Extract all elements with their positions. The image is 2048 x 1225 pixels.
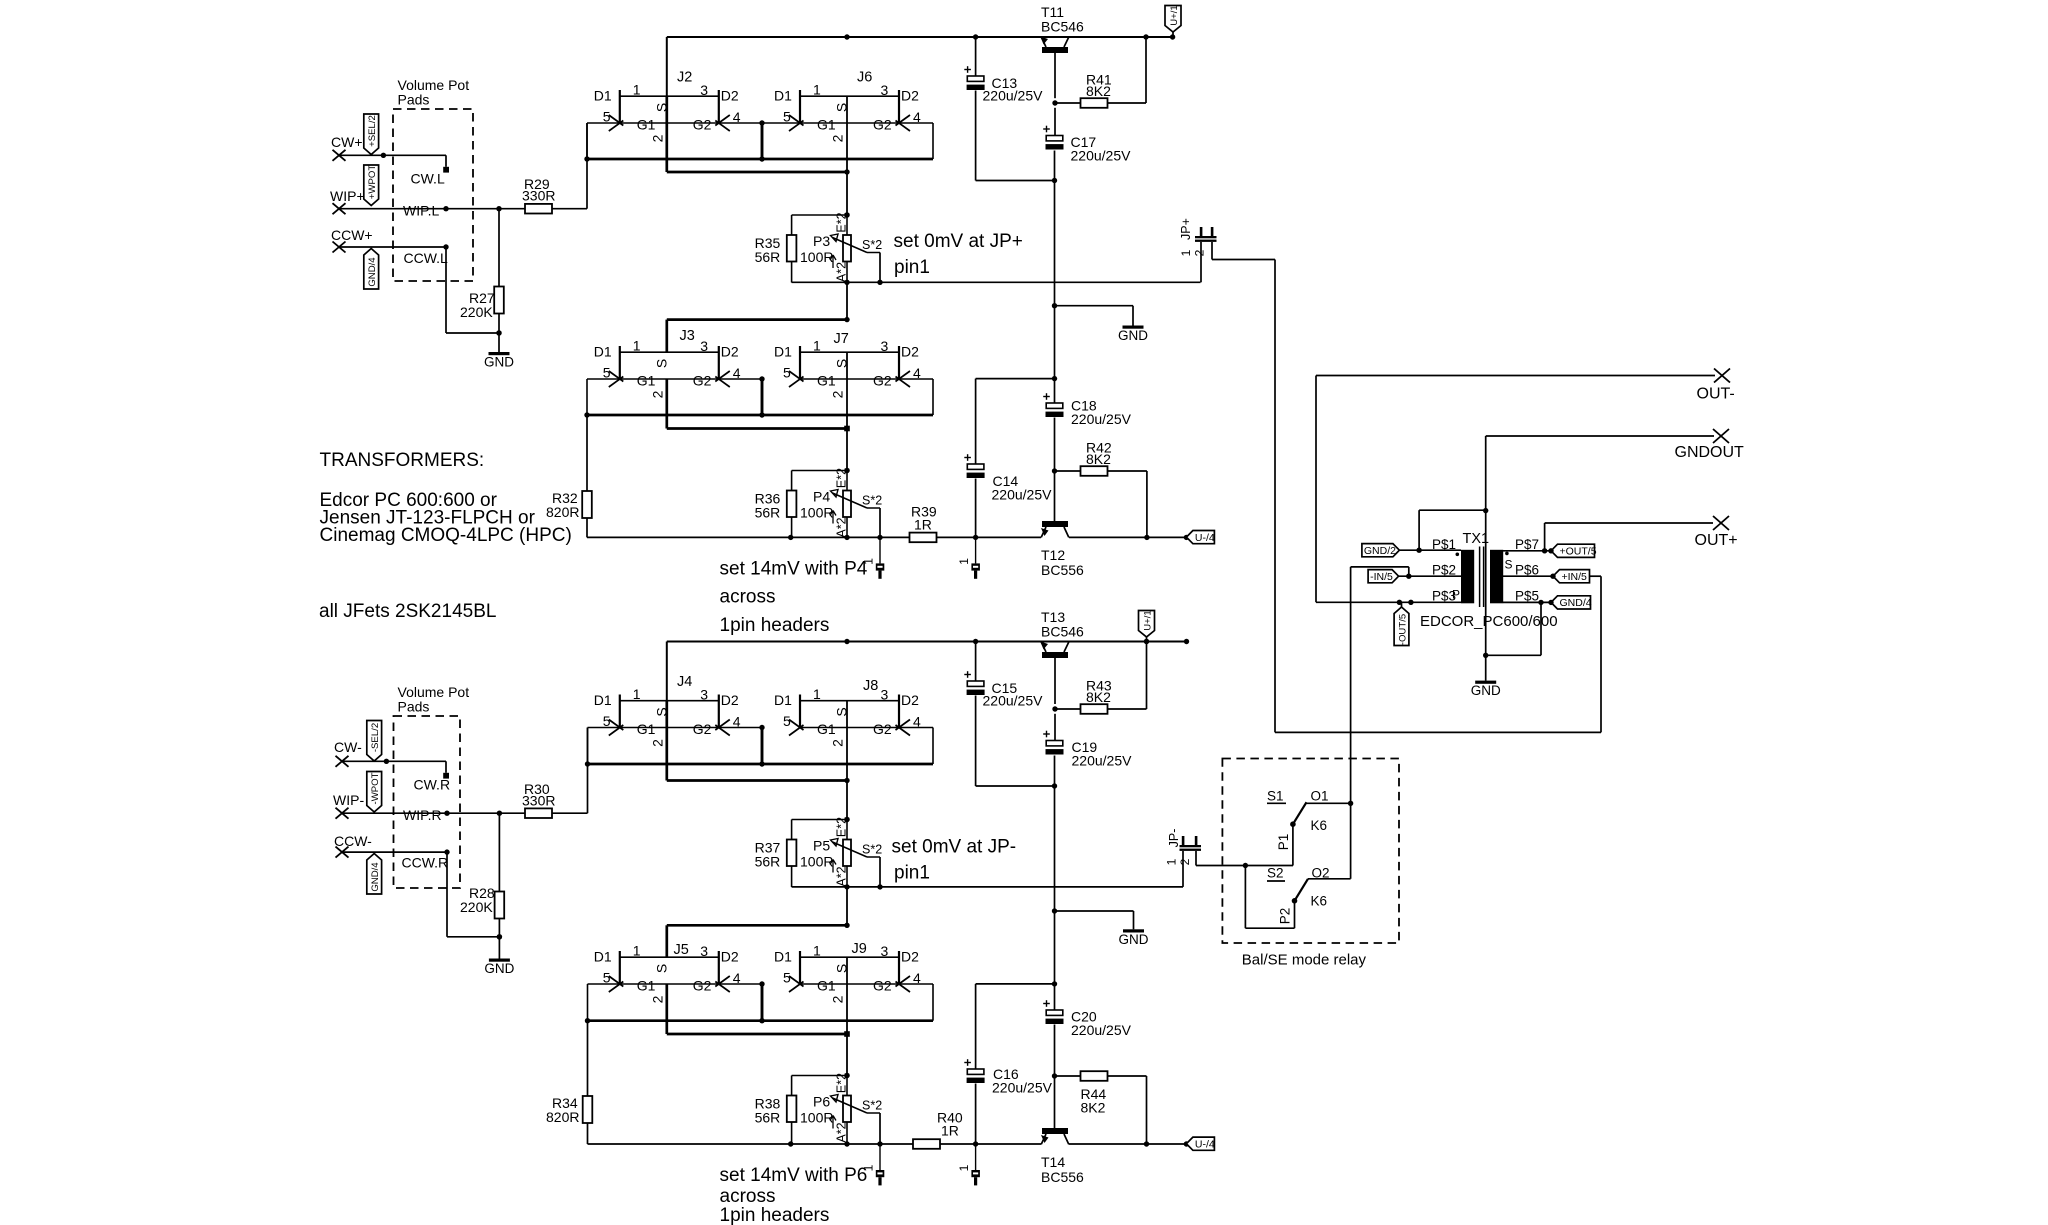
pad flag U+/1 (bottom) <box>1139 610 1155 637</box>
svg-text:set 0mV at JP-: set 0mV at JP- <box>892 837 1017 858</box>
svg-text:WIP.R: WIP.R <box>403 807 442 823</box>
svg-text:5: 5 <box>783 109 791 125</box>
svg-text:CCW.L: CCW.L <box>404 250 449 266</box>
text Volume Pot Pads (right) <box>398 684 470 715</box>
jfet J4 (dual 2SK2145) <box>594 674 741 747</box>
1pin header (P6 out) <box>862 1144 885 1185</box>
svg-text:1pin headers: 1pin headers <box>720 615 830 636</box>
svg-text:CW.L: CW.L <box>411 171 445 187</box>
wire R42 right <box>1108 471 1150 540</box>
wire P6 pot leads <box>846 1076 848 1144</box>
capacitor C15 <box>964 671 1043 708</box>
svg-text:set 14mV with P6: set 14mV with P6 <box>720 1165 868 1186</box>
wire chain to C18 <box>1054 306 1056 403</box>
svg-text:S*2: S*2 <box>862 494 882 508</box>
wire rail to C15 <box>975 642 977 682</box>
wire R32 bottom <box>587 518 910 540</box>
connector JP- <box>1165 829 1202 866</box>
svg-text:GND: GND <box>1471 683 1501 698</box>
text Volume Pot Pads (left) <box>398 77 470 108</box>
svg-text:1: 1 <box>633 81 641 97</box>
wire GND branch (bottom) <box>1055 911 1134 929</box>
wire C20 to R44 <box>1052 981 1057 1128</box>
svg-text:D1: D1 <box>774 692 792 708</box>
svg-text:BC546: BC546 <box>1041 624 1084 640</box>
pad flag +IN/5 <box>1553 570 1590 583</box>
transistor T13 BC546 <box>1041 609 1085 658</box>
resistor R40 <box>913 1110 963 1149</box>
pad flag -SEL/2 <box>367 721 382 762</box>
svg-text:2: 2 <box>830 134 846 142</box>
svg-text:T12: T12 <box>1041 547 1065 563</box>
wire R40 to T14 <box>940 1141 1041 1146</box>
wire gates long (J4 row) <box>585 761 933 766</box>
svg-text:D2: D2 <box>901 344 919 360</box>
wire P3 top <box>792 212 850 217</box>
svg-text:1R: 1R <box>914 517 932 533</box>
svg-text:D2: D2 <box>901 949 919 965</box>
terminal WIP- <box>333 792 364 819</box>
wire R43 left <box>1055 708 1081 710</box>
wire gate drop left (J4 row) <box>587 728 589 765</box>
svg-text:P$3: P$3 <box>1432 589 1456 604</box>
svg-text:D2: D2 <box>721 344 739 360</box>
wire P5 pot leads <box>846 820 848 888</box>
pad CW.L <box>411 167 450 187</box>
svg-text:3: 3 <box>700 686 708 702</box>
wire J3-J7 gate link <box>587 378 762 380</box>
wire R34 bottom <box>588 1123 914 1147</box>
resistor R36 <box>755 471 797 539</box>
jfet J5 (dual 2SK2145) <box>594 942 741 1003</box>
svg-text:Bal/SE mode relay: Bal/SE mode relay <box>1242 952 1367 969</box>
svg-text:D1: D1 <box>594 692 612 708</box>
wire gate drop left (J5 row) <box>587 984 589 1021</box>
pad flag U-/4 (bottom) <box>1186 1137 1214 1150</box>
svg-text:220u/25V: 220u/25V <box>1071 1022 1132 1038</box>
svg-text:K6: K6 <box>1311 893 1328 908</box>
resistor R34 <box>546 1095 592 1125</box>
svg-text:G2: G2 <box>693 372 712 388</box>
wire P1 <box>1292 824 1294 865</box>
wire rail J4 row <box>667 639 1189 701</box>
svg-text:1R: 1R <box>941 1123 959 1139</box>
wire PS5 to GND <box>1486 602 1541 655</box>
svg-text:JP-: JP- <box>1167 829 1181 848</box>
resistor R35 <box>755 215 797 283</box>
wire J2 source jog <box>667 96 850 175</box>
svg-text:Pads: Pads <box>398 92 430 108</box>
svg-text:J9: J9 <box>852 941 867 957</box>
wire gates long (J5 row) <box>585 1018 933 1023</box>
dashed box volume pot pads left <box>393 109 473 281</box>
terminal OUT+ <box>1695 516 1738 549</box>
svg-text:S: S <box>653 964 669 973</box>
svg-text:CCW.R: CCW.R <box>402 855 449 871</box>
svg-text:8K2: 8K2 <box>1086 689 1111 705</box>
svg-text:CW+: CW+ <box>331 134 363 150</box>
svg-text:2: 2 <box>649 134 665 142</box>
svg-text:2: 2 <box>649 739 665 747</box>
wire C13 bottom <box>976 91 1058 184</box>
jfet J3 (dual 2SK2145) <box>594 328 741 398</box>
wire CW- to CW.R <box>342 759 446 773</box>
svg-text:G1: G1 <box>817 721 836 737</box>
wire T12 emitter to U-/4 <box>1069 535 1189 540</box>
wire R30 to J4 gate <box>552 728 588 814</box>
svg-text:BC556: BC556 <box>1041 1169 1084 1185</box>
wire R44 right <box>1108 1076 1150 1147</box>
wire rail J2 row <box>667 34 1173 96</box>
svg-text:220u/25V: 220u/25V <box>1071 148 1132 164</box>
svg-text:+WPOT: +WPOT <box>367 165 378 200</box>
svg-text:GND: GND <box>1119 932 1149 947</box>
wire network bottom to JP- (net out-) <box>792 884 1183 889</box>
svg-text:2: 2 <box>830 739 846 747</box>
svg-text:56R: 56R <box>755 854 781 870</box>
trimmer pot P5 <box>800 817 882 887</box>
svg-text:CCW+: CCW+ <box>331 227 373 243</box>
jfet J6 (dual 2SK2145) <box>774 70 921 143</box>
wire CCW+ / CCW.L <box>339 244 502 335</box>
svg-text:1: 1 <box>813 337 821 353</box>
svg-text:P2: P2 <box>1278 908 1293 925</box>
svg-text:G1: G1 <box>637 721 656 737</box>
wire +IN to route <box>1590 575 1602 577</box>
wire mid gate drop (J5 row) <box>759 981 764 1020</box>
wire J7 chain down <box>844 352 849 473</box>
wire WIP.R <box>342 811 525 816</box>
transistor T12 BC556 <box>1041 521 1084 578</box>
wire WIP to R28 <box>498 813 500 891</box>
label WIP.L <box>403 203 440 219</box>
wire J6 gate entry <box>762 123 933 159</box>
capacitor C16 <box>964 1059 1052 1095</box>
svg-text:J3: J3 <box>680 328 695 344</box>
svg-text:100R: 100R <box>800 505 833 521</box>
wire C14 branch <box>976 379 1055 464</box>
svg-text:GND/4: GND/4 <box>367 257 378 287</box>
svg-text:1: 1 <box>633 942 641 958</box>
wire R43 right to rail <box>1108 642 1147 710</box>
wire R41 right to rail <box>1108 37 1147 103</box>
1pin header (C16) <box>957 1144 980 1185</box>
svg-text:G1: G1 <box>817 977 836 993</box>
svg-text:820R: 820R <box>546 1109 579 1125</box>
svg-text:P$2: P$2 <box>1432 563 1456 578</box>
wire OUT- to PS3 <box>1316 376 1715 606</box>
wire J3 source conn <box>667 320 847 353</box>
svg-text:1: 1 <box>1179 249 1193 256</box>
wire P3 pot leads <box>846 215 848 283</box>
svg-text:+SEL/2: +SEL/2 <box>367 115 378 147</box>
connector JP+ <box>1179 218 1217 256</box>
wire J6 source chain <box>844 96 849 218</box>
pad flag GND/2 <box>1362 544 1400 557</box>
dashed box relay <box>1222 759 1399 944</box>
pad CW.R <box>414 773 451 793</box>
wire PS6 <box>1503 574 1556 579</box>
wire O2 <box>1308 803 1351 879</box>
ground (bottom mid) <box>1119 929 1149 947</box>
svg-text:G1: G1 <box>637 977 656 993</box>
resistor R30 <box>522 781 555 818</box>
wire C15 bottom <box>976 696 1058 789</box>
svg-text:2: 2 <box>649 995 665 1003</box>
svg-text:GND/2: GND/2 <box>1364 545 1396 557</box>
wire gate drop left (J2 row) <box>586 123 588 159</box>
pad flag +WPOT <box>364 165 379 206</box>
svg-text:EDCOR_PC600/600: EDCOR_PC600/600 <box>1420 613 1558 630</box>
svg-text:G1: G1 <box>637 116 656 132</box>
wire R32 top <box>586 415 588 491</box>
svg-text:O1: O1 <box>1311 789 1329 804</box>
wire R41 left <box>1055 102 1081 104</box>
wire T11 base chain <box>1052 108 1057 309</box>
svg-text:JP+: JP+ <box>1179 218 1193 240</box>
svg-text:3: 3 <box>700 82 708 98</box>
resistor R43 <box>1081 678 1112 714</box>
svg-text:+OUT/5: +OUT/5 <box>1560 546 1597 558</box>
svg-text:P5: P5 <box>813 838 830 854</box>
jfet J2 (dual 2SK2145) <box>594 70 741 143</box>
svg-text:D1: D1 <box>774 949 792 965</box>
svg-text:set 14mV with P4: set 14mV with P4 <box>720 559 868 580</box>
svg-text:1: 1 <box>813 942 821 958</box>
wire network bottom to JP+ (net out+) <box>792 280 1201 285</box>
svg-text:GND: GND <box>484 355 514 370</box>
text set 0mV at JP+ pin1 <box>894 231 1023 278</box>
svg-text:OUT+: OUT+ <box>1695 532 1738 549</box>
svg-text:-IN/5: -IN/5 <box>1370 571 1393 583</box>
svg-text:2: 2 <box>830 995 846 1003</box>
wire chain J8 to J5 row <box>844 887 849 928</box>
wire P6 top <box>792 1073 850 1078</box>
wire J4 source jog <box>667 701 850 783</box>
svg-text:J2: J2 <box>677 70 692 86</box>
svg-text:all JFets 2SK2145BL: all JFets 2SK2145BL <box>319 601 496 622</box>
svg-text:820R: 820R <box>546 504 579 520</box>
wire R29 to J2 gate <box>552 123 587 209</box>
ground (top mid) <box>1118 326 1148 344</box>
trimmer pot P4 <box>800 468 882 538</box>
svg-text:D1: D1 <box>774 344 792 360</box>
text set 14mV with P4 <box>720 559 868 637</box>
transistor T11 BC546 <box>1041 4 1085 53</box>
capacitor C18 <box>1043 393 1131 427</box>
terminal GNDOUT <box>1675 429 1745 461</box>
svg-text:1: 1 <box>813 686 821 702</box>
text all JFets 2SK2145BL <box>319 601 496 622</box>
resistor R39 <box>910 504 937 543</box>
svg-text:G1: G1 <box>817 116 836 132</box>
terminal OUT- <box>1697 369 1735 403</box>
resistor R27 <box>460 287 504 321</box>
terminal CW+ <box>331 134 363 161</box>
svg-text:56R: 56R <box>755 505 781 521</box>
svg-text:8K2: 8K2 <box>1086 83 1111 99</box>
wire C14 bottom <box>975 479 977 538</box>
wire J5 source jog <box>667 984 850 1037</box>
svg-text:WIP.L: WIP.L <box>403 203 440 219</box>
wire core to GND <box>1483 511 1488 681</box>
ground (TX1) <box>1471 681 1501 699</box>
svg-text:J5: J5 <box>674 942 689 958</box>
svg-text:D1: D1 <box>594 344 612 360</box>
wire R44 left <box>1055 1075 1081 1077</box>
pad flag GND/4 (left top) <box>364 249 379 290</box>
svg-text:220u/25V: 220u/25V <box>1071 411 1132 427</box>
wire T11 base <box>1052 53 1057 106</box>
svg-text:D2: D2 <box>721 88 739 104</box>
svg-text:1: 1 <box>957 558 971 565</box>
svg-text:1: 1 <box>633 686 641 702</box>
relay contact K6 (1) S1/O1/P1 <box>1267 789 1329 851</box>
resistor R41 <box>1081 72 1112 108</box>
svg-text:P3: P3 <box>813 233 830 249</box>
wire P2 <box>1245 866 1294 929</box>
capacitor C17 <box>1043 126 1131 164</box>
svg-text:S*2: S*2 <box>862 238 882 252</box>
pad flag -OUT/5 <box>1394 607 1409 646</box>
pad flag +SEL/2 <box>364 114 379 155</box>
svg-text:CCW-: CCW- <box>334 833 372 849</box>
1pin header (C14) <box>957 537 980 578</box>
svg-text:330R: 330R <box>522 793 555 809</box>
text TRANSFORMERS block <box>320 450 572 546</box>
svg-text:5: 5 <box>783 365 791 381</box>
svg-text:Cinemag CMOQ-4LPC (HPC): Cinemag CMOQ-4LPC (HPC) <box>320 525 572 546</box>
pad flag +OUT/5 <box>1551 544 1597 557</box>
pad flag -IN/5 <box>1368 570 1399 583</box>
svg-text:1: 1 <box>633 337 641 353</box>
svg-text:220u/25V: 220u/25V <box>992 1080 1053 1096</box>
wire T13 base chain <box>1052 714 1057 914</box>
wire O1 <box>1307 801 1354 806</box>
wire PS5 <box>1503 600 1554 605</box>
svg-text:3: 3 <box>881 686 889 702</box>
wire J8 source chain <box>844 701 849 822</box>
svg-text:P6: P6 <box>813 1094 830 1110</box>
ground (R27) <box>484 352 514 370</box>
capacitor C19 <box>1043 731 1132 769</box>
wire -IN loop to relay <box>1351 567 1409 803</box>
svg-text:5: 5 <box>603 713 611 729</box>
svg-text:-WPOT: -WPOT <box>370 772 381 804</box>
svg-text:1: 1 <box>1165 858 1179 865</box>
svg-text:S: S <box>653 359 669 368</box>
svg-text:D2: D2 <box>721 949 739 965</box>
svg-text:2: 2 <box>1193 249 1207 256</box>
svg-text:BC546: BC546 <box>1041 19 1084 35</box>
resistor R38 <box>755 1076 797 1144</box>
svg-text:8K2: 8K2 <box>1081 1100 1106 1116</box>
svg-text:2: 2 <box>649 390 665 398</box>
wire WIP to R27 <box>498 209 500 287</box>
svg-text:8K2: 8K2 <box>1086 451 1111 467</box>
pin labels TX1 <box>1432 537 1539 604</box>
wire JP- pin2 route <box>1196 851 1293 868</box>
wire J8 gate right <box>899 728 933 765</box>
svg-text:1pin headers: 1pin headers <box>720 1205 830 1225</box>
wire mid gate drop (J2 row) <box>759 120 764 159</box>
svg-text:G1: G1 <box>637 372 656 388</box>
svg-text:T14: T14 <box>1041 1154 1065 1170</box>
relay contact K6 (2) S2/O2/P2 <box>1267 866 1330 925</box>
svg-text:220K: 220K <box>460 304 493 320</box>
resistor R29 <box>522 176 555 214</box>
svg-text:J7: J7 <box>834 331 849 347</box>
wire rail to C13 <box>975 37 977 76</box>
wire T13 base <box>1052 658 1057 712</box>
svg-text:G2: G2 <box>693 721 712 737</box>
svg-text:1: 1 <box>813 81 821 97</box>
svg-text:-SEL/2: -SEL/2 <box>370 723 381 752</box>
svg-text:J6: J6 <box>857 70 872 86</box>
svg-text:across: across <box>720 587 776 608</box>
wire C16 branch <box>976 984 1055 1069</box>
svg-text:3: 3 <box>881 82 889 98</box>
svg-text:2: 2 <box>830 390 846 398</box>
wire C18 to R42 <box>1052 376 1057 521</box>
wire J3 source jog <box>667 379 850 431</box>
svg-text:CW.R: CW.R <box>414 777 451 793</box>
transformer TX1 EDCOR_PC600/600 <box>1420 531 1558 630</box>
svg-text:S: S <box>1505 558 1513 572</box>
svg-text:K6: K6 <box>1311 818 1328 833</box>
svg-text:J4: J4 <box>677 674 692 690</box>
svg-text:TRANSFORMERS:: TRANSFORMERS: <box>320 450 485 471</box>
wire GNDOUT to core <box>1483 436 1714 513</box>
svg-text:GNDOUT: GNDOUT <box>1675 444 1745 461</box>
wire CCW- / CCW.R <box>342 849 502 939</box>
text set 0mV at JP- pin1 <box>892 837 1017 884</box>
svg-text:S1: S1 <box>1267 789 1284 804</box>
svg-text:5: 5 <box>603 365 611 381</box>
svg-text:GND: GND <box>484 961 514 976</box>
svg-text:P$6: P$6 <box>1515 563 1539 578</box>
svg-text:OUT-: OUT- <box>1697 386 1735 403</box>
wire chain to C20 <box>1054 911 1056 1010</box>
resistor R28 <box>460 885 504 919</box>
text set 14mV with P6 <box>720 1165 868 1225</box>
svg-text:1: 1 <box>957 1164 971 1171</box>
svg-text:J8: J8 <box>863 678 878 694</box>
pad flag U+/1 (top) <box>1165 5 1181 32</box>
svg-text:3: 3 <box>881 943 889 959</box>
svg-text:D2: D2 <box>901 692 919 708</box>
svg-text:P$7: P$7 <box>1515 537 1539 552</box>
svg-text:U-/4: U-/4 <box>1195 532 1215 544</box>
trimmer pot P3 <box>800 212 882 282</box>
wire GND branch (top) <box>1055 306 1134 326</box>
svg-text:3: 3 <box>700 338 708 354</box>
svg-text:220K: 220K <box>460 899 493 915</box>
svg-text:D2: D2 <box>901 88 919 104</box>
svg-text:S2: S2 <box>1267 866 1284 881</box>
wire J7 gate right <box>899 379 933 415</box>
svg-text:GND: GND <box>1118 328 1148 343</box>
wire chain J6 to J3 row <box>844 282 849 322</box>
svg-text:G2: G2 <box>873 977 892 993</box>
svg-text:G2: G2 <box>873 116 892 132</box>
wire J5-J9 gate link <box>588 983 763 985</box>
svg-text:5: 5 <box>603 970 611 986</box>
wire PS1 <box>1399 548 1461 553</box>
svg-text:D1: D1 <box>594 949 612 965</box>
pad flag -WPOT <box>367 772 382 813</box>
resistor R37 <box>755 820 797 888</box>
